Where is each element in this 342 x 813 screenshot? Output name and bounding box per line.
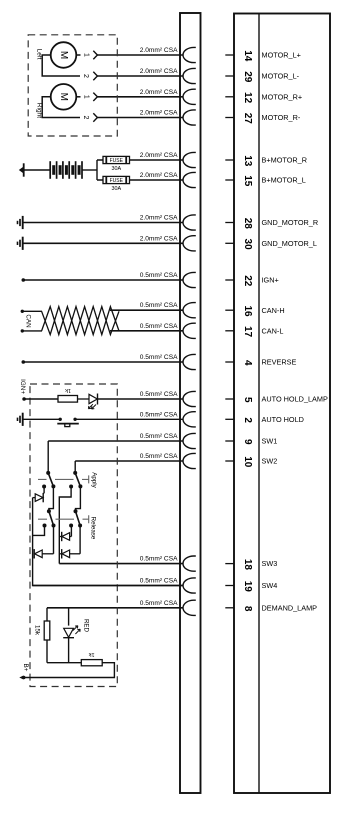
svg-text:CAN: CAN <box>25 314 32 328</box>
wire harness trunk rectangle <box>180 13 201 793</box>
LED D6 emission arrows <box>73 626 80 634</box>
svg-text:29: 29 <box>242 71 253 83</box>
motor left return lead <box>42 55 80 76</box>
wire R2 bottom <box>46 640 48 663</box>
B+ arrow tip <box>19 676 23 680</box>
wire D6 bottom <box>68 638 70 663</box>
wire CAN-H lead <box>22 310 42 312</box>
svg-text:2: 2 <box>242 417 253 423</box>
inline socket contact, CAN-H wire <box>183 303 196 318</box>
svg-text:13: 13 <box>242 155 253 167</box>
inline socket contact, SW3 wire <box>183 556 196 571</box>
twisted pair strand A <box>42 307 119 335</box>
LED D6 (RED demand lamp) <box>64 628 74 637</box>
svg-text:0.5mm² CSA: 0.5mm² CSA <box>140 433 178 440</box>
pin stub 9 <box>225 440 234 442</box>
svg-text:2: 2 <box>82 74 89 78</box>
wire GND_MOTOR_L to connector <box>22 242 183 244</box>
svg-text:18: 18 <box>242 559 253 571</box>
pin stub 14 <box>225 54 234 56</box>
wire IGN+ to resistor 1k <box>24 398 58 400</box>
svg-text:2.0mm² CSA: 2.0mm² CSA <box>140 172 178 179</box>
inline socket contact, DEMAND_LAMP wire <box>183 600 196 615</box>
diode D4 <box>33 549 35 558</box>
inline socket contact, CAN-L wire <box>183 323 196 338</box>
inline socket contact, MOTOR_L+ wire <box>183 47 196 62</box>
wire apply pole1 throw to diode D2 <box>43 487 45 494</box>
pin stub 18 <box>225 563 234 565</box>
svg-text:0.5mm² CSA: 0.5mm² CSA <box>140 354 178 361</box>
inline plug chevron (left -) <box>93 72 97 80</box>
svg-text:0.5mm² CSA: 0.5mm² CSA <box>140 578 178 585</box>
svg-text:1k: 1k <box>89 651 95 657</box>
svg-text:1k: 1k <box>65 387 71 393</box>
svg-text:2.0mm² CSA: 2.0mm² CSA <box>140 215 178 222</box>
node REVERSE end <box>22 360 26 364</box>
svg-text:SW3: SW3 <box>262 559 278 568</box>
svg-text:10: 10 <box>242 456 253 468</box>
wire DEMAND_LAMP drop <box>46 608 48 621</box>
pin stub 16 <box>225 309 234 311</box>
svg-text:2.0mm² CSA: 2.0mm² CSA <box>140 110 178 117</box>
svg-text:M: M <box>58 51 69 59</box>
inline plug chevron (right +) <box>93 93 97 101</box>
svg-text:CAN-H: CAN-H <box>262 306 285 315</box>
svg-text:AUTO HOLD_LAMP: AUTO HOLD_LAMP <box>262 395 328 404</box>
wire MOTOR_L+ to connector <box>97 54 183 56</box>
resistor R3 1k <box>81 660 102 666</box>
wire MOTOR_R- to connector <box>97 117 183 119</box>
svg-text:B+MOTOR_R: B+MOTOR_R <box>262 156 307 165</box>
svg-text:1: 1 <box>83 53 90 57</box>
svg-text:0.5mm² CSA: 0.5mm² CSA <box>140 302 178 309</box>
inline socket contact, MOTOR_L- wire <box>183 68 196 83</box>
release switch pole 2 contacts and blade <box>74 509 78 513</box>
svg-text:RED: RED <box>82 619 89 633</box>
chassis ground (AUTO HOLD) <box>22 413 24 426</box>
pin stub 28 <box>225 222 234 224</box>
svg-text:IGN+: IGN+ <box>19 379 26 394</box>
inline socket contact, GND_MOTOR_L wire <box>183 236 196 251</box>
wire IGN+ to connector <box>23 279 183 281</box>
svg-text:0.5mm² CSA: 0.5mm² CSA <box>140 556 178 563</box>
motor right return lead <box>42 97 80 118</box>
wire SW4 to connector <box>33 585 183 587</box>
wire MOTOR_R+ to connector <box>97 96 183 98</box>
svg-text:30A: 30A <box>112 186 122 192</box>
wire B+MOTOR_L to connector <box>130 179 184 181</box>
resistor R2 15k <box>44 621 50 640</box>
inline socket contact, GND_MOTOR_R wire <box>183 215 196 230</box>
svg-text:0.5mm² CSA: 0.5mm² CSA <box>140 272 178 279</box>
svg-text:0.5mm² CSA: 0.5mm² CSA <box>140 323 178 330</box>
mechanical gang link (apply) <box>38 475 89 483</box>
wire REVERSE to connector <box>23 361 183 363</box>
fuse F1 30A <box>103 156 130 163</box>
svg-text:2: 2 <box>82 116 89 120</box>
svg-text:0.5mm² CSA: 0.5mm² CSA <box>140 411 178 418</box>
wire SW1 drop to apply switch pole 1 <box>47 441 49 473</box>
twisted pair strand B <box>42 307 119 335</box>
svg-text:GND_MOTOR_L: GND_MOTOR_L <box>262 239 317 248</box>
svg-text:14: 14 <box>242 50 253 62</box>
svg-text:0.5mm² CSA: 0.5mm² CSA <box>140 600 178 607</box>
svg-text:MOTOR_R+: MOTOR_R+ <box>262 92 303 101</box>
svg-text:0.5mm² CSA: 0.5mm² CSA <box>140 453 178 460</box>
svg-text:Apply: Apply <box>90 472 97 488</box>
diode D2 <box>35 494 43 502</box>
pin stub 22 <box>225 279 234 281</box>
svg-text:FUSE: FUSE <box>110 158 124 164</box>
svg-text:M: M <box>58 93 69 101</box>
pin stub 10 <box>225 460 234 462</box>
wire apply pole2 throw to SW3 rail <box>59 487 71 564</box>
wire SW1 to connector <box>48 440 183 442</box>
pin stub 27 <box>225 117 234 119</box>
wire ground to push button <box>23 418 61 420</box>
release switch pole 1 contacts and blade <box>47 509 51 513</box>
svg-text:8: 8 <box>242 606 253 612</box>
svg-text:GND_MOTOR_R: GND_MOTOR_R <box>262 218 319 227</box>
wire SW3 to connector <box>59 563 183 565</box>
svg-text:REVERSE: REVERSE <box>262 358 297 367</box>
node CAN-L end <box>21 329 24 332</box>
svg-text:30: 30 <box>242 239 253 251</box>
mechanical gang link (release) <box>38 515 89 523</box>
wire SW2 drop to apply switch pole 2 <box>74 461 76 473</box>
wire release pole1 blade to diode D4 <box>53 526 55 554</box>
inline socket contact, B+MOTOR_L wire <box>183 172 196 187</box>
inline socket contact, SW4 wire <box>183 578 196 593</box>
inline plug chevron (right -) <box>93 113 97 121</box>
inline socket contact, MOTOR_R- wire <box>183 110 196 125</box>
svg-text:9: 9 <box>242 439 253 445</box>
inline socket contact, IGN+ wire <box>183 272 196 287</box>
motor left + lead <box>76 54 80 56</box>
node IGN+ supply end <box>22 278 26 282</box>
svg-text:SW1: SW1 <box>262 437 278 446</box>
chassis ground (GND_MOTOR_R) <box>22 216 24 229</box>
svg-text:CAN-L: CAN-L <box>262 326 284 335</box>
svg-text:2.0mm² CSA: 2.0mm² CSA <box>140 89 178 96</box>
node B+ lamp supply <box>22 676 26 680</box>
motor M (Right) <box>51 84 77 110</box>
node CAN-H end <box>21 310 24 313</box>
rail wire to SW4 <box>33 498 183 586</box>
svg-text:2.0mm² CSA: 2.0mm² CSA <box>140 68 178 75</box>
inline socket contact, SW2 wire <box>183 453 196 468</box>
chassis ground (GND_MOTOR_L) <box>22 237 24 250</box>
pin stub 4 <box>225 361 234 363</box>
inline socket contact, AUTO HOLD wire <box>183 412 196 427</box>
inline socket contact, B+MOTOR_R wire <box>183 152 196 167</box>
wire GND_MOTOR_R to connector <box>22 222 183 224</box>
svg-text:16: 16 <box>242 305 253 317</box>
svg-text:2.0mm² CSA: 2.0mm² CSA <box>140 152 178 159</box>
pin stub 17 <box>225 330 234 332</box>
svg-text:SW2: SW2 <box>262 457 278 466</box>
wire AUTO HOLD_LAMP to connector <box>98 398 183 400</box>
wire CAN-H to connector <box>110 309 183 311</box>
svg-text:FUSE: FUSE <box>110 178 124 184</box>
pin stub 30 <box>225 242 234 244</box>
node IGN+ lamp feed <box>22 397 26 401</box>
fuse feed split junction <box>97 160 103 180</box>
resistor R1 1k <box>58 396 78 403</box>
svg-text:0.5mm² CSA: 0.5mm² CSA <box>140 391 178 398</box>
fuse F2 30A <box>103 176 130 183</box>
wire R1 to LED D1 <box>78 398 90 400</box>
pin stub 5 <box>225 398 234 400</box>
wire CAN-L to connector <box>110 330 183 332</box>
svg-text:12: 12 <box>242 92 253 104</box>
wire AUTO HOLD (switch side segment) <box>75 418 183 420</box>
pin stub 13 <box>225 159 234 161</box>
pin stub 19 <box>225 585 234 587</box>
svg-text:17: 17 <box>242 326 253 338</box>
pin stub 2 <box>225 418 234 420</box>
pin stub 12 <box>225 96 234 98</box>
svg-text:15k: 15k <box>34 625 41 636</box>
svg-text:DEMAND_LAMP: DEMAND_LAMP <box>262 603 318 612</box>
svg-text:1: 1 <box>83 95 90 99</box>
inline socket contact, MOTOR_R+ wire <box>183 89 196 104</box>
LED D1 emission arrows <box>88 404 96 409</box>
wire CAN-L lead <box>22 330 42 332</box>
svg-text:19: 19 <box>242 581 253 593</box>
wire apply pole2 to release pole2 <box>76 486 81 511</box>
pin stub 29 <box>225 75 234 77</box>
wire R3 to B+ return <box>24 663 115 678</box>
wire release pole2 blade to diode D5 <box>79 526 81 554</box>
wire LED D6 branch <box>68 608 70 626</box>
push button contact left <box>59 418 62 421</box>
wire lamp module bottom bus <box>47 662 81 664</box>
svg-text:AUTO HOLD: AUTO HOLD <box>262 415 304 424</box>
pin stub 8 <box>225 607 234 609</box>
battery cells <box>49 161 51 179</box>
apply switch pole 2 contacts and blade <box>73 471 77 475</box>
B+ supply terminal arrow <box>19 166 24 173</box>
motor module dashed enclosure <box>28 35 117 136</box>
inline socket contact, SW1 wire <box>183 433 196 448</box>
ECU connector block <box>234 14 330 794</box>
svg-text:MOTOR_L-: MOTOR_L- <box>262 72 300 81</box>
wire DEMAND_LAMP to connector <box>47 607 183 609</box>
svg-text:15: 15 <box>242 175 253 187</box>
svg-text:IGN+: IGN+ <box>262 276 279 285</box>
svg-text:30A: 30A <box>112 166 122 172</box>
motor right + lead <box>76 96 80 98</box>
svg-text:2.0mm² CSA: 2.0mm² CSA <box>140 47 178 54</box>
svg-text:27: 27 <box>242 113 253 125</box>
wire SW2 to connector <box>75 460 183 462</box>
svg-text:5: 5 <box>242 397 253 403</box>
pin stub 15 <box>225 179 234 181</box>
svg-text:22: 22 <box>242 275 253 287</box>
inline plug chevron (left +) <box>93 51 97 59</box>
svg-text:Release: Release <box>89 517 96 540</box>
ECU connector pin column divider <box>258 14 260 794</box>
svg-text:SW4: SW4 <box>262 581 278 590</box>
diode D3 <box>59 536 61 538</box>
diode D5 <box>59 553 61 555</box>
inline socket contact, REVERSE wire <box>183 354 196 369</box>
wire battery to fuse split <box>82 169 97 171</box>
switch pack dashed enclosure <box>30 384 117 687</box>
LED D1 (auto hold lamp) <box>89 394 97 403</box>
push button contact right <box>73 418 76 421</box>
inline socket contact, AUTO HOLD_LAMP wire <box>183 391 196 406</box>
svg-text:B+MOTOR_L: B+MOTOR_L <box>262 176 306 185</box>
wire apply pole1 to release pole1 <box>49 486 54 511</box>
svg-text:28: 28 <box>242 218 253 230</box>
wire B+ to battery <box>24 169 50 171</box>
apply switch pole 1 contacts and blade <box>46 471 50 475</box>
svg-text:MOTOR_L+: MOTOR_L+ <box>262 51 301 60</box>
push button SW (AUTO HOLD) <box>57 423 79 425</box>
wire B+MOTOR_R to connector <box>130 159 184 161</box>
svg-text:B+: B+ <box>22 664 29 672</box>
svg-text:2.0mm² CSA: 2.0mm² CSA <box>140 235 178 242</box>
wire release pole2 throw to diode D3 <box>70 526 72 537</box>
svg-text:MOTOR_R-: MOTOR_R- <box>262 113 301 122</box>
wire MOTOR_L- to connector <box>97 75 183 77</box>
wire release pole1 throw to rail <box>33 526 45 536</box>
motor M (Left) <box>51 42 77 68</box>
svg-text:4: 4 <box>242 360 253 366</box>
